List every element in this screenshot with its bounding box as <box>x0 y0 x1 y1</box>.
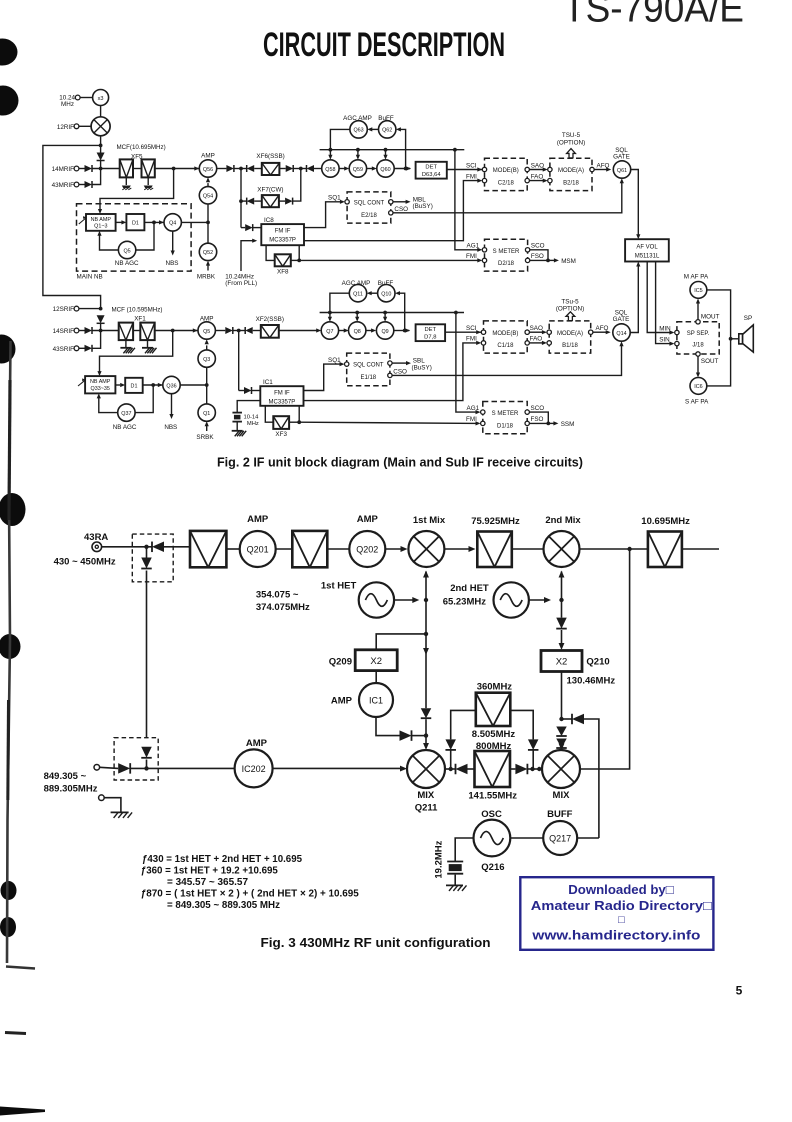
diode 14SRIF <box>85 327 93 334</box>
diode (sub injection) <box>97 315 105 323</box>
wire SSM <box>548 422 556 424</box>
amp Q201 <box>240 531 276 567</box>
wire AG1 <box>456 313 479 413</box>
svg-text:MSM: MSM <box>561 258 576 265</box>
svg-text:Q54: Q54 <box>203 194 213 200</box>
wire SAO <box>529 169 545 171</box>
amp Q5 <box>198 322 215 339</box>
scan blob <box>1 881 17 900</box>
svg-text:XF2(SSB): XF2(SSB) <box>256 316 284 323</box>
mixer (main 1st IF) <box>91 117 110 136</box>
bandpass filter <box>292 531 327 567</box>
svg-text:AMP: AMP <box>247 514 269 525</box>
crystal filter XF5 b <box>142 159 155 177</box>
terminal 12RIF <box>74 124 79 129</box>
svg-text:1st HET: 1st HET <box>321 580 357 591</box>
diode 43MRIF <box>85 181 93 188</box>
node <box>355 311 359 315</box>
diode <box>528 739 539 750</box>
wire 10.24MHz from PLL <box>241 241 256 271</box>
wire Q11 to rail <box>330 293 349 312</box>
wire MIX out <box>580 549 630 769</box>
wire Q61 out <box>631 170 639 235</box>
wire Q10 feed <box>400 293 405 330</box>
svg-text:Fig. 3 430MHz RF unit configu: Fig. 3 430MHz RF unit configuration <box>261 935 491 950</box>
svg-text:MODE(A): MODE(A) <box>558 168 584 174</box>
svg-text:75.925MHz: 75.925MHz <box>471 516 520 527</box>
wire <box>100 106 102 117</box>
node <box>205 383 209 387</box>
crystal 19.2MHz <box>447 861 463 863</box>
wire FAO <box>529 180 545 182</box>
AGC rail <box>320 312 464 314</box>
NB AMP Q1~3 box <box>86 214 116 231</box>
IF amp Q9 <box>376 322 393 339</box>
svg-text:Q63: Q63 <box>353 128 363 134</box>
svg-text:x3: x3 <box>98 96 104 102</box>
svg-text:X2: X2 <box>556 657 568 668</box>
wire <box>79 168 85 170</box>
svg-text:65.23MHz: 65.23MHz <box>443 596 487 607</box>
svg-text:MOUT: MOUT <box>701 314 720 321</box>
wire <box>143 384 163 386</box>
svg-text:10-14: 10-14 <box>244 414 260 420</box>
svg-text:SIN: SIN <box>659 336 670 343</box>
wire <box>116 221 122 223</box>
scan streak <box>7 341 11 963</box>
wire SAO <box>529 331 544 333</box>
node <box>239 167 243 171</box>
svg-text:889.305MHz: 889.305MHz <box>44 784 98 795</box>
wire <box>425 572 427 601</box>
wire <box>241 227 245 229</box>
pin CSO <box>389 211 393 215</box>
AF VOL M51131L box <box>625 239 669 261</box>
node <box>546 259 550 263</box>
svg-text:SP SEP.: SP SEP. <box>687 331 710 337</box>
wire <box>327 548 349 550</box>
wire <box>133 168 142 170</box>
pin <box>548 167 552 171</box>
wire CSO to SQL gate <box>393 182 622 212</box>
wire <box>510 837 543 839</box>
node <box>559 598 563 602</box>
crystal 10-14MHz <box>232 412 242 414</box>
svg-text:MAIN NB: MAIN NB <box>77 274 103 281</box>
wire MRBK <box>207 265 209 271</box>
node <box>559 717 563 721</box>
wire <box>100 161 102 169</box>
tripler x3 Q-stage <box>93 90 109 106</box>
pin AFO <box>589 330 593 334</box>
wire <box>99 398 118 413</box>
terminal 14MRIF <box>74 166 79 171</box>
svg-text:XF1: XF1 <box>134 316 146 323</box>
wire AG1 <box>455 150 480 250</box>
ground <box>147 177 149 185</box>
option arrow <box>567 149 576 158</box>
wire <box>561 672 563 720</box>
svg-text:NB AMP: NB AMP <box>91 217 112 223</box>
wire SOUT to IC6 <box>697 356 699 373</box>
svg-text:8.505MHz: 8.505MHz <box>472 729 516 740</box>
wire <box>577 837 599 839</box>
gate arrow <box>79 218 87 225</box>
pin AG1 <box>481 410 485 414</box>
wire <box>561 600 563 618</box>
wire <box>561 747 563 749</box>
svg-text:(BuSY): (BuSY) <box>412 365 432 372</box>
dashed box MAIN NB <box>77 204 192 271</box>
svg-text:SQL CONT: SQL CONT <box>354 201 385 207</box>
pin SCO <box>525 248 529 252</box>
node <box>328 311 332 315</box>
dashed box S METER D1/18 <box>483 402 527 434</box>
diode <box>141 747 152 758</box>
dashed box antenna switch <box>132 534 173 582</box>
svg-text:10.695MHz: 10.695MHz <box>641 516 690 527</box>
svg-text:FMI: FMI <box>466 416 477 423</box>
svg-text:2nd HET: 2nd HET <box>450 583 489 594</box>
filter 360MHz <box>476 693 511 726</box>
IF amp Q7 <box>321 322 338 339</box>
svg-text:CSO: CSO <box>393 368 407 375</box>
wire <box>562 718 573 720</box>
wire <box>252 390 261 392</box>
svg-text:SCO: SCO <box>531 243 545 250</box>
svg-text:5: 5 <box>736 984 743 998</box>
wire <box>206 345 208 350</box>
diode <box>400 730 412 741</box>
svg-text:2nd Mix: 2nd Mix <box>545 515 581 526</box>
wire to FM IF <box>238 331 240 391</box>
diode <box>445 739 456 750</box>
pin AFO <box>590 167 594 171</box>
svg-text:MODE(B): MODE(B) <box>493 168 519 174</box>
svg-text:= 849.305 ~ 889.305 MHz: = 849.305 ~ 889.305 MHz <box>167 900 280 911</box>
wire <box>102 546 152 548</box>
wire <box>279 200 285 202</box>
pin SAO <box>525 330 529 334</box>
svg-text:XF6(SSB): XF6(SSB) <box>256 153 284 160</box>
NB tap wire <box>100 169 174 210</box>
svg-text:GATE: GATE <box>613 316 630 323</box>
svg-text:AF VOL: AF VOL <box>636 244 658 250</box>
svg-text:MIX: MIX <box>417 790 435 801</box>
AF power amp IC6 <box>690 378 707 395</box>
wire <box>273 767 404 769</box>
wire <box>512 548 544 550</box>
svg-text:X2: X2 <box>370 656 382 667</box>
svg-text:Q202: Q202 <box>356 544 378 554</box>
pin SIN <box>675 341 679 345</box>
wire FSO <box>529 422 548 424</box>
node <box>329 148 333 152</box>
svg-text:DET: DET <box>425 164 437 170</box>
pin SQ1 <box>345 362 349 366</box>
wire <box>215 330 225 332</box>
node <box>424 733 428 737</box>
wire <box>731 338 739 340</box>
node <box>546 422 550 426</box>
pin SQ1 <box>345 200 349 204</box>
pin SOUT <box>696 352 700 356</box>
node <box>453 148 457 152</box>
AF power amp IC5 <box>690 282 707 299</box>
svg-text:SP: SP <box>744 315 752 322</box>
svg-text:OSC: OSC <box>481 809 502 820</box>
svg-text:141.55MHz: 141.55MHz <box>468 790 517 801</box>
svg-text:E1/18: E1/18 <box>360 375 376 381</box>
node speaker junction <box>729 337 733 341</box>
svg-text:IC1: IC1 <box>369 695 383 705</box>
detector D1 box <box>125 378 143 393</box>
svg-text:IC6: IC6 <box>694 384 702 390</box>
svg-text:AMP: AMP <box>246 738 268 749</box>
wire AGC loop <box>136 222 154 250</box>
svg-text:S AF PA: S AF PA <box>685 399 709 406</box>
svg-text:FSO: FSO <box>531 416 544 423</box>
node main mixer output <box>99 144 103 148</box>
wire to FM IF <box>240 201 242 228</box>
diode <box>515 764 527 775</box>
svg-text:MC3357P: MC3357P <box>269 238 296 244</box>
wire <box>226 548 239 550</box>
svg-text:Q9: Q9 <box>381 329 388 335</box>
svg-text:IC202: IC202 <box>242 764 266 774</box>
svg-text:430 ~ 450MHz: 430 ~ 450MHz <box>54 556 116 567</box>
svg-text:Q1~3: Q1~3 <box>94 224 107 230</box>
svg-text:MRBK: MRBK <box>197 274 216 281</box>
stage Q3 <box>198 350 215 367</box>
diode <box>245 224 253 231</box>
stacked diode b <box>556 739 567 749</box>
svg-text:Q56: Q56 <box>203 167 213 173</box>
wire AGC loop <box>135 385 153 413</box>
svg-text:SQ1: SQ1 <box>328 357 341 364</box>
IF amp Q60 <box>377 160 394 177</box>
mixer 1st Mix <box>408 531 444 567</box>
wire <box>394 599 416 601</box>
wire <box>298 245 300 260</box>
wire AFO <box>594 169 609 171</box>
wire Q63 to rail <box>330 129 350 149</box>
FM IF MC3357P box <box>261 224 304 245</box>
svg-text:Q33~35: Q33~35 <box>91 386 110 392</box>
scan mark <box>5 1033 26 1034</box>
ground <box>147 340 149 347</box>
wire <box>254 168 262 170</box>
AGC rail <box>320 149 465 151</box>
pin <box>547 341 551 345</box>
svg-text:FMI: FMI <box>466 173 477 180</box>
svg-text:Q59: Q59 <box>353 167 363 173</box>
amp IC1 <box>359 683 393 717</box>
dashed box S METER D2/18 <box>485 239 528 271</box>
diode <box>245 327 253 334</box>
terminal ground leg <box>99 795 105 801</box>
wire <box>444 548 472 550</box>
svg-text:S METER: S METER <box>492 411 519 417</box>
wire <box>291 259 299 261</box>
ground <box>125 340 127 347</box>
svg-text:Q10: Q10 <box>381 292 391 298</box>
crystal filter XF8 <box>275 254 291 266</box>
svg-text:SRBK: SRBK <box>196 434 214 441</box>
stage Q52 <box>199 243 216 260</box>
svg-text:Q3: Q3 <box>203 357 210 363</box>
wire Q4 to Q52 rail <box>181 221 208 223</box>
scan streak foot <box>6 967 35 969</box>
svg-text:FM IF: FM IF <box>274 391 290 397</box>
svg-text:C1/18: C1/18 <box>497 343 514 349</box>
diode <box>421 708 432 718</box>
terminal 14SRIF <box>74 328 79 333</box>
stage Q36 <box>163 376 180 393</box>
IF amp Q59 <box>349 160 366 177</box>
svg-text:Q37: Q37 <box>121 411 131 417</box>
node <box>99 329 103 333</box>
svg-text:CIRCUIT DESCRIPTION: CIRCUIT DESCRIPTION <box>263 26 505 64</box>
svg-text:SOUT: SOUT <box>701 358 719 365</box>
svg-text:B2/18: B2/18 <box>563 181 579 187</box>
pin FMI <box>481 341 485 345</box>
pin MOUT <box>696 320 700 324</box>
crystal filter XF6 <box>262 163 280 175</box>
wire FAO <box>529 342 544 344</box>
wire <box>367 168 373 170</box>
stacked diode a <box>556 727 567 737</box>
node <box>299 167 303 171</box>
wire <box>147 767 235 769</box>
wire <box>80 97 93 99</box>
svg-text:800MHz: 800MHz <box>476 741 512 752</box>
dashed box MODE(A) B1/18 <box>549 321 591 353</box>
pin CSO <box>388 373 392 377</box>
svg-text:D7,8: D7,8 <box>424 334 436 340</box>
ground <box>232 430 243 432</box>
svg-text:TS-790A/E: TS-790A/E <box>563 0 744 31</box>
wire SBL <box>392 362 407 364</box>
wire <box>293 168 306 170</box>
watermark box <box>520 877 713 950</box>
svg-text:AMP: AMP <box>201 152 215 159</box>
NB AMP Q33~35 box <box>85 376 115 393</box>
diode <box>285 198 293 205</box>
pin FMI <box>482 178 486 182</box>
stage Q37 (NB AGC) <box>118 404 135 421</box>
pin SBL <box>388 361 392 365</box>
stage Q54 <box>199 187 216 204</box>
node <box>454 311 458 315</box>
svg-text:(OPTION): (OPTION) <box>557 139 585 146</box>
wire <box>375 671 377 683</box>
wire <box>279 168 285 170</box>
svg-text:MIX: MIX <box>553 790 571 801</box>
svg-text:D63,64: D63,64 <box>422 172 441 178</box>
svg-text:ƒ870 = ( 1st HET × 2 ) + ( 2nd: ƒ870 = ( 1st HET × 2 ) + ( 2nd HET × 2) … <box>141 888 359 899</box>
diode <box>118 763 130 774</box>
oscillator 1st HET <box>359 582 394 617</box>
svg-text:□: □ <box>618 914 625 926</box>
pin AG1 <box>482 248 486 252</box>
svg-text:D1: D1 <box>132 221 139 227</box>
svg-text:J/18: J/18 <box>692 343 704 349</box>
node <box>403 329 407 333</box>
dashed box SP SEP J/18 <box>677 322 719 354</box>
wire <box>155 330 198 332</box>
scan blob <box>0 493 26 526</box>
amp IC202 <box>235 749 273 787</box>
wire MSM <box>548 259 557 261</box>
wire FMI (mode) <box>304 181 480 241</box>
node <box>530 767 534 771</box>
svg-text:Q8: Q8 <box>354 329 361 335</box>
pin <box>548 178 552 182</box>
wire AF VOL out SIN <box>656 262 673 344</box>
oscillator OSC Q216 <box>474 820 511 857</box>
svg-text:M51131L: M51131L <box>635 254 660 260</box>
svg-text:CSO: CSO <box>394 206 408 213</box>
filter 75.925MHz <box>477 532 512 568</box>
wire <box>253 330 261 332</box>
terminal 10.24MHz <box>75 95 80 100</box>
wire <box>510 710 533 739</box>
wire <box>425 736 427 747</box>
pin MIN <box>675 330 679 334</box>
pin FMI <box>481 421 485 425</box>
svg-text:Q11: Q11 <box>353 292 363 298</box>
svg-text:Q61: Q61 <box>617 168 627 174</box>
svg-text:14MRIF: 14MRIF <box>52 166 75 173</box>
svg-text:Q4: Q4 <box>169 221 176 227</box>
svg-text:XF3: XF3 <box>275 431 287 438</box>
wire <box>130 767 146 769</box>
svg-text:FSO: FSO <box>531 253 544 260</box>
stage Q5 (NB AGC) <box>118 241 135 258</box>
svg-text:(From PLL): (From PLL) <box>225 280 257 287</box>
wire <box>445 768 456 770</box>
wire Q36 to Q3 rail <box>180 384 207 386</box>
wire <box>254 200 262 202</box>
node <box>99 307 103 311</box>
terminal 43RA <box>92 542 102 552</box>
wire MOUT to IC5 <box>697 302 699 319</box>
svg-text:SCI: SCI <box>466 162 477 169</box>
wire SCO loop <box>530 250 548 261</box>
svg-text:NB AGC: NB AGC <box>115 260 139 267</box>
wire <box>164 546 190 548</box>
wire <box>217 168 227 170</box>
svg-text:C2/18: C2/18 <box>498 181 515 187</box>
diode <box>556 618 567 629</box>
detector DET D63,64 <box>416 162 447 179</box>
wire <box>92 169 101 185</box>
svg-text:SSM: SSM <box>561 421 575 428</box>
svg-text:849.305 ~: 849.305 ~ <box>44 771 87 782</box>
gate arrow <box>78 380 86 386</box>
svg-text:NB AMP: NB AMP <box>90 379 111 385</box>
svg-text:(BuSY): (BuSY) <box>413 203 433 210</box>
wire <box>329 150 331 156</box>
svg-text:AMP: AMP <box>357 514 379 525</box>
dashed box MODE(B) C1/18 <box>484 321 528 353</box>
svg-text:Q201: Q201 <box>247 544 269 554</box>
svg-text:ƒ360 = 1st HET + 19.2 +10.695: ƒ360 = 1st HET + 19.2 +10.695 <box>141 865 278 876</box>
scan blob <box>0 634 21 659</box>
wire Q3 to Q1 <box>206 367 208 404</box>
wire <box>527 768 542 770</box>
